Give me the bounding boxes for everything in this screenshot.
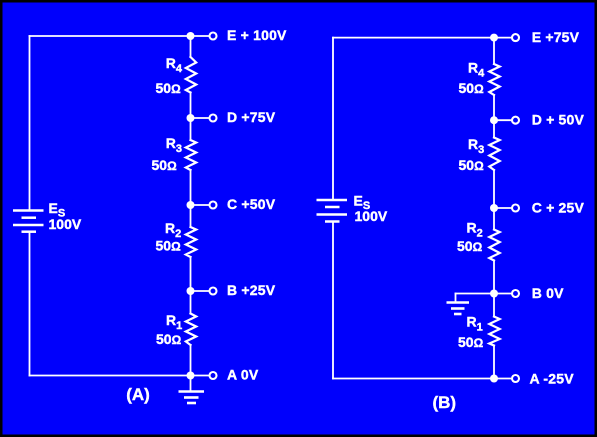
svg-text:(A): (A) xyxy=(126,385,150,404)
terminal circle E (A) xyxy=(210,33,217,40)
wire: R4 bottom to node D xyxy=(190,93,192,119)
terminal circle C (B) xyxy=(512,205,519,212)
wire: R4 bottom to node D (B) xyxy=(493,95,495,120)
svg-text:50Ω: 50Ω xyxy=(156,238,182,254)
wire: node D to R3 top (B) xyxy=(493,120,495,137)
svg-text:E +75V: E +75V xyxy=(532,29,580,45)
wire: node E to R4 top (B) xyxy=(493,38,495,64)
wire: node B to R1 top (B) xyxy=(493,294,495,317)
resistor R1 (B) zigzag xyxy=(489,317,499,346)
svg-text:C + 25V: C + 25V xyxy=(532,199,585,215)
terminal circle E (B) xyxy=(512,34,519,41)
wire: node D to R3 top xyxy=(190,118,192,140)
resistor R4 (A) zigzag xyxy=(186,57,196,93)
svg-text:50Ω: 50Ω xyxy=(459,157,485,173)
svg-text:C +50V: C +50V xyxy=(227,196,276,212)
svg-text:50Ω: 50Ω xyxy=(458,334,484,350)
wire: terminal stub node E (A) xyxy=(191,35,210,37)
terminal circle C (A) xyxy=(210,202,217,209)
wire: circuit A left vertical (bottom) from battery - down xyxy=(29,232,31,376)
wire: circuit A left vertical (top) down to battery + xyxy=(29,36,31,210)
wire: terminal stub node B (A) xyxy=(191,290,210,292)
svg-text:D + 50V: D + 50V xyxy=(532,112,585,128)
svg-text:100V: 100V xyxy=(49,216,82,232)
battery ES (B) xyxy=(317,200,348,222)
node A (B) junction dot xyxy=(490,375,498,383)
wire: node B to R1 top xyxy=(190,291,192,314)
svg-text:B +25V: B +25V xyxy=(227,282,276,298)
svg-text:50Ω: 50Ω xyxy=(156,331,182,347)
wire: terminal stub node A (A) xyxy=(191,375,210,377)
wire: terminal stub node A (B) xyxy=(494,378,512,380)
node E (B) junction dot xyxy=(490,34,498,42)
wire: R3 bottom to node C xyxy=(190,170,192,205)
terminal circle A (A) xyxy=(210,372,217,379)
wire: ground stub vertical (B) xyxy=(455,294,457,302)
node C (B) junction dot xyxy=(490,204,498,212)
resistor R2 (A) zigzag xyxy=(186,227,196,257)
wire: R3 bottom to node C (B) xyxy=(493,170,495,208)
wire: terminal stub node D (A) xyxy=(191,117,210,119)
ground (B) at node B xyxy=(447,303,470,315)
wire: node E to R4 top xyxy=(190,36,192,57)
wire: circuit A top horizontal from battery to node E xyxy=(30,35,191,37)
resistor R1 (A) zigzag xyxy=(186,314,196,346)
resistor R3 (B) zigzag xyxy=(489,138,499,171)
resistor R4 (B) zigzag xyxy=(489,64,499,95)
node E (A) junction dot xyxy=(187,32,195,40)
svg-text:50Ω: 50Ω xyxy=(152,157,178,173)
wire: R1 bottom to node A xyxy=(190,345,192,376)
svg-text:A -25V: A -25V xyxy=(530,371,575,387)
svg-text:(B): (B) xyxy=(432,393,456,412)
svg-text:D +75V: D +75V xyxy=(227,109,276,125)
wire: circuit A bottom horizontal to node A xyxy=(30,375,191,377)
node B (A) junction dot xyxy=(187,287,195,295)
wire: node C to R2 top xyxy=(190,205,192,227)
wire: circuit B bottom horizontal to node A xyxy=(333,378,494,380)
wire: terminal stub node E (B) xyxy=(494,37,512,39)
wire: ground stub horizontal at node B (B) xyxy=(456,293,495,295)
wire: R1 bottom to node A (B) xyxy=(493,346,495,379)
terminal circle D (B) xyxy=(512,117,519,124)
svg-text:A 0V: A 0V xyxy=(227,367,259,383)
svg-text:B 0V: B 0V xyxy=(532,285,564,301)
resistor R3 (A) zigzag xyxy=(186,140,196,170)
terminal circle D (A) xyxy=(210,115,217,122)
battery ES (A) xyxy=(13,211,44,232)
svg-text:50Ω: 50Ω xyxy=(156,80,182,96)
svg-text:50Ω: 50Ω xyxy=(457,238,483,254)
terminal circle B (A) xyxy=(210,288,217,295)
resistor R2 (B) zigzag xyxy=(489,230,499,261)
terminal circle B (B) xyxy=(512,290,519,297)
ground (A) at node A xyxy=(179,376,205,404)
svg-text:100V: 100V xyxy=(355,208,388,224)
wire: terminal stub node D (B) xyxy=(494,119,512,121)
node D (A) junction dot xyxy=(187,114,195,122)
wire: circuit B top horizontal from battery to node E xyxy=(333,37,494,39)
node C (A) junction dot xyxy=(187,201,195,209)
wire: node C to R2 top (B) xyxy=(493,208,495,230)
node B (B) junction dot xyxy=(490,290,498,298)
wire: R2 bottom to node B (B) xyxy=(493,261,495,294)
node D (B) junction dot xyxy=(490,116,498,124)
terminal circle A (B) xyxy=(512,375,519,382)
svg-text:E + 100V: E + 100V xyxy=(227,27,287,43)
node A (A) junction dot xyxy=(187,372,195,380)
wire: terminal stub node C (A) xyxy=(191,204,210,206)
wire: circuit B left vertical (bottom) from battery - down xyxy=(332,222,334,379)
wire: R2 bottom to node B xyxy=(190,257,192,291)
svg-text:50Ω: 50Ω xyxy=(459,80,485,96)
wire: terminal stub node C (B) xyxy=(494,207,512,209)
wire: terminal stub node B (B) xyxy=(494,293,512,295)
wire: circuit B left vertical (top) down to battery + xyxy=(332,38,334,200)
